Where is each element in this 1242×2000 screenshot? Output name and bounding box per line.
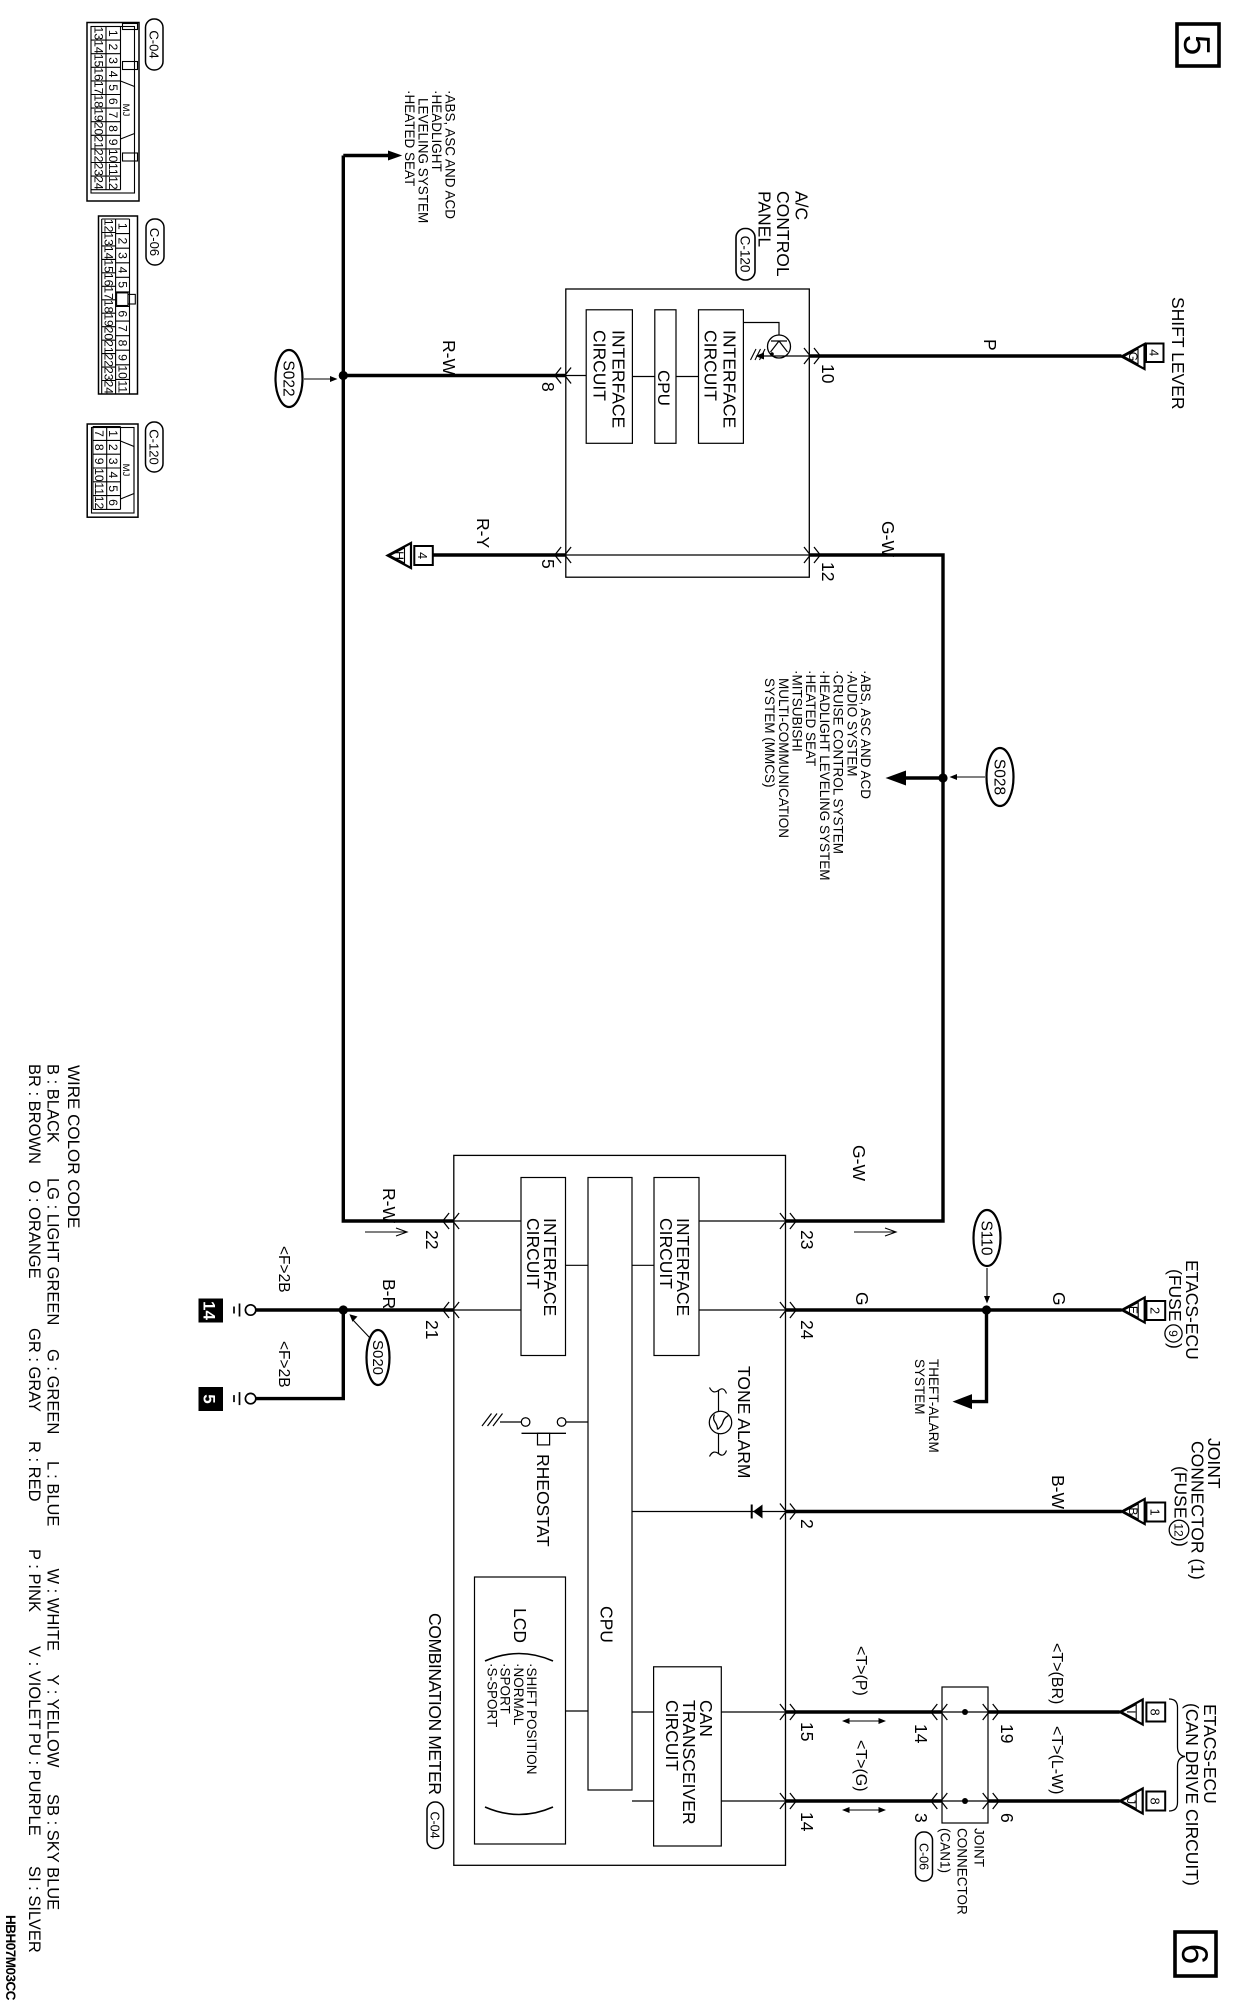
page-ref arrow E2 (ETACS-ECU fuse 9) bbox=[1122, 1298, 1166, 1323]
ETACS-ECU (fuse 9) label bbox=[1165, 1260, 1202, 1360]
interface circuit box (meter left) bbox=[521, 1178, 566, 1356]
A/C control panel box bbox=[566, 289, 810, 577]
direction arrow (pin 22) bbox=[365, 1228, 407, 1236]
svg-text:14: 14 bbox=[911, 1724, 931, 1744]
svg-text:18: 18 bbox=[92, 95, 106, 109]
pin 23 chevrons bbox=[780, 1213, 796, 1229]
wire R-Y: pin 5 down to page arrow bbox=[433, 553, 566, 556]
svg-text:·MITSUBISHI: ·MITSUBISHI bbox=[790, 670, 805, 752]
direction arrow (T P) bbox=[842, 1718, 886, 1724]
wire: A/C upper interface to cpu bbox=[676, 376, 699, 378]
svg-text:5: 5 bbox=[116, 281, 130, 288]
svg-text:·HEATED SEAT: ·HEATED SEAT bbox=[402, 90, 417, 186]
svg-text:P: P bbox=[980, 339, 1000, 351]
joint connector (CAN1) box bbox=[942, 1687, 988, 1823]
joint dot (pin 3-6) bbox=[962, 1798, 968, 1804]
svg-text:·SPORT: ·SPORT bbox=[498, 1663, 513, 1714]
svg-text:3: 3 bbox=[106, 57, 120, 64]
wire B-W: pin 2 up to joint connector(1) bbox=[786, 1510, 1122, 1513]
svg-text:<T>(G): <T>(G) bbox=[852, 1740, 869, 1792]
svg-text:CIRCUIT: CIRCUIT bbox=[523, 1218, 543, 1289]
svg-text:20: 20 bbox=[102, 327, 116, 341]
pin 8 wire inside A/C panel bbox=[566, 375, 586, 377]
svg-text:·HEADLIGHT: ·HEADLIGHT bbox=[429, 90, 444, 172]
JC pin 3 chevrons bbox=[931, 1793, 947, 1809]
ground wire to ground 5 bbox=[256, 1310, 344, 1399]
svg-text:9: 9 bbox=[92, 458, 106, 465]
svg-text:<T>(BR): <T>(BR) bbox=[1048, 1643, 1065, 1704]
combination meter box bbox=[454, 1155, 786, 1865]
junction S022 dot bbox=[339, 371, 348, 380]
interface circuit box (meter right) bbox=[654, 1178, 699, 1356]
svg-text:INTERFACE: INTERFACE bbox=[609, 330, 629, 428]
wire: meter left interface to cpu bbox=[566, 1264, 589, 1266]
svg-text:LEVELING SYSTEM: LEVELING SYSTEM bbox=[416, 98, 431, 223]
svg-text:C-04: C-04 bbox=[428, 1811, 442, 1838]
wire CAN <T>(G): pin 14 to joint connector bbox=[786, 1799, 943, 1802]
wire G-W: pin 12 up, bus across, down to meter pin 23 bbox=[786, 555, 944, 1221]
wire R-W: pin 8 down to bus bbox=[342, 374, 566, 377]
svg-text:S020: S020 bbox=[369, 1340, 386, 1375]
svg-text:CIRCUIT: CIRCUIT bbox=[656, 1218, 676, 1289]
svg-text:·ABS, ASC AND ACD: ·ABS, ASC AND ACD bbox=[443, 90, 458, 219]
connector pinout C-04 bbox=[87, 23, 139, 202]
svg-text:11: 11 bbox=[116, 380, 130, 393]
cpu box (A/C panel) bbox=[654, 310, 676, 444]
svg-text:1: 1 bbox=[106, 430, 120, 437]
wire G: pin 24 up to ETACS-ECU bbox=[786, 1308, 1122, 1311]
svg-text:CIRCUIT: CIRCUIT bbox=[590, 330, 610, 401]
R-W bus destination text bbox=[402, 90, 458, 223]
svg-text:20: 20 bbox=[92, 122, 106, 136]
diode (pin 2 wire) bbox=[632, 1505, 786, 1519]
tone alarm bbox=[709, 1388, 731, 1457]
connector pinout C-06 bbox=[99, 216, 138, 394]
page-ref arrow H4 (R-Y to page 4) bbox=[388, 543, 433, 568]
R-W bus arrow to other systems bbox=[343, 151, 402, 161]
wire CAN <T>(P): pin 15 to joint connector bbox=[786, 1710, 943, 1713]
svg-text:S022: S022 bbox=[280, 360, 297, 396]
svg-text:): ) bbox=[1165, 1343, 1185, 1349]
svg-text:ETACS-ECU: ETACS-ECU bbox=[1182, 1260, 1202, 1360]
svg-text:17: 17 bbox=[102, 286, 116, 300]
page-ref arrow G4 (to shift lever) bbox=[1122, 344, 1164, 370]
svg-text:CONTROL: CONTROL bbox=[773, 191, 793, 277]
svg-text:9: 9 bbox=[1166, 1330, 1180, 1337]
splice label S022 bbox=[276, 350, 338, 407]
page-ref arrow I8 (CAN high) bbox=[1120, 1700, 1166, 1725]
svg-text:CONNECTOR: CONNECTOR bbox=[955, 1828, 970, 1915]
svg-text:2: 2 bbox=[116, 238, 130, 245]
svg-text:8: 8 bbox=[1147, 1709, 1161, 1716]
circled 12 bbox=[1169, 1520, 1189, 1540]
svg-text:(FUSE: (FUSE bbox=[1165, 1269, 1185, 1322]
svg-text:CPU: CPU bbox=[654, 370, 673, 406]
svg-text:R-W: R-W bbox=[379, 1188, 399, 1223]
can transceiver circuit box bbox=[654, 1667, 722, 1846]
svg-text:9: 9 bbox=[106, 139, 120, 146]
wire: A/C cpu to lower interface bbox=[632, 376, 654, 378]
ground symbol 5 bbox=[234, 1392, 256, 1405]
svg-text:7: 7 bbox=[116, 325, 130, 332]
svg-text:14: 14 bbox=[797, 1812, 817, 1832]
ground number box 14 bbox=[199, 1299, 224, 1323]
svg-text:14: 14 bbox=[102, 246, 116, 260]
svg-text:5: 5 bbox=[538, 559, 558, 569]
svg-text:22: 22 bbox=[92, 149, 106, 163]
connector tag C-04 (pinout) bbox=[146, 19, 164, 70]
interface circuit box (A/C lower) bbox=[586, 310, 632, 444]
svg-text:24: 24 bbox=[102, 381, 116, 395]
pin 5 chevrons bbox=[555, 547, 571, 563]
svg-text:24: 24 bbox=[92, 176, 106, 190]
svg-text:6: 6 bbox=[997, 1813, 1017, 1823]
page number box 6 bbox=[1174, 1932, 1216, 1976]
svg-text:INTERFACE: INTERFACE bbox=[720, 330, 740, 428]
svg-text:C-06: C-06 bbox=[147, 228, 162, 256]
svg-text:): ) bbox=[1171, 1541, 1191, 1547]
svg-text:23: 23 bbox=[102, 367, 116, 381]
svg-text:<T>(P): <T>(P) bbox=[852, 1646, 869, 1696]
svg-text:7: 7 bbox=[106, 112, 120, 119]
cpu box (meter) bbox=[588, 1178, 632, 1791]
svg-text:G: G bbox=[1049, 1292, 1069, 1306]
rheostat bbox=[482, 1414, 588, 1445]
svg-text:·NORMAL: ·NORMAL bbox=[511, 1663, 526, 1726]
pin 21 chevrons bbox=[443, 1302, 459, 1318]
svg-text:(FUSE: (FUSE bbox=[1171, 1466, 1191, 1519]
svg-text:1: 1 bbox=[116, 223, 130, 230]
pin 10 chevrons bbox=[804, 348, 820, 364]
svg-text:CIRCUIT: CIRCUIT bbox=[701, 330, 721, 401]
svg-text:BR : BROWNO : ORANGEGR : GRAYR: BR : BROWNO : ORANGEGR : GRAYR : REDP : … bbox=[25, 1064, 43, 1953]
wire: A/C upper interface to illumination lamp bbox=[743, 323, 779, 336]
svg-text:2: 2 bbox=[106, 444, 120, 451]
svg-text:A/C: A/C bbox=[792, 191, 812, 220]
svg-text:1: 1 bbox=[1147, 1509, 1161, 1516]
svg-text:10: 10 bbox=[116, 365, 130, 379]
svg-text:1: 1 bbox=[106, 30, 120, 37]
splice label S020 bbox=[349, 1314, 389, 1385]
svg-text:5: 5 bbox=[1176, 35, 1217, 56]
ETACS-ECU (CAN drive circuit) label bbox=[1182, 1703, 1220, 1886]
svg-text:22: 22 bbox=[102, 354, 116, 368]
pin 12 chevrons bbox=[804, 547, 820, 563]
svg-text:·HEADLIGHT LEVELING SYSTEM: ·HEADLIGHT LEVELING SYSTEM bbox=[817, 670, 832, 881]
svg-text:14: 14 bbox=[92, 40, 106, 54]
junction S028 dot bbox=[938, 773, 947, 782]
svg-text:16: 16 bbox=[102, 273, 116, 287]
junction S020 dot bbox=[339, 1305, 348, 1314]
illumination lamp bbox=[768, 335, 791, 358]
svg-text:B-R: B-R bbox=[379, 1279, 399, 1309]
svg-text:<F>2B: <F>2B bbox=[275, 1246, 292, 1293]
connector tag C-06 (pinout) bbox=[146, 219, 164, 265]
pin 14 chevrons bbox=[780, 1793, 796, 1809]
wire CAN <T>(BR): joint connector to ETACS bbox=[988, 1710, 1120, 1713]
svg-text:5: 5 bbox=[200, 1394, 219, 1403]
svg-text:4: 4 bbox=[1147, 349, 1161, 356]
svg-text:C-06: C-06 bbox=[917, 1843, 931, 1870]
svg-text:R-W: R-W bbox=[439, 340, 459, 375]
pin 21 wire inside meter bbox=[454, 1309, 521, 1311]
svg-text:(CAN1): (CAN1) bbox=[938, 1828, 953, 1873]
svg-text:B-W: B-W bbox=[1048, 1475, 1068, 1510]
svg-text:G: G bbox=[1126, 352, 1140, 361]
svg-text:2: 2 bbox=[106, 44, 120, 51]
svg-text:SYSTEM (MMCS): SYSTEM (MMCS) bbox=[762, 678, 777, 788]
wires: cpu to can transceiver bbox=[632, 1711, 654, 1713]
svg-text:LCD: LCD bbox=[510, 1608, 530, 1643]
svg-text:WIRE COLOR CODE: WIRE COLOR CODE bbox=[64, 1065, 83, 1228]
svg-text:10: 10 bbox=[106, 149, 120, 163]
svg-text:6: 6 bbox=[1174, 1944, 1215, 1965]
svg-text:23: 23 bbox=[797, 1230, 817, 1249]
svg-text:10: 10 bbox=[818, 364, 838, 384]
svg-text:E: E bbox=[1126, 1306, 1140, 1314]
pin 24 chevrons bbox=[780, 1302, 796, 1318]
joint connector CAN1 wires through box bbox=[942, 1711, 988, 1713]
svg-text:15: 15 bbox=[102, 259, 116, 273]
svg-text:22: 22 bbox=[422, 1230, 442, 1249]
joint connector CAN1 label bbox=[938, 1828, 987, 1915]
svg-text:C-120: C-120 bbox=[147, 429, 162, 464]
svg-text:C-120: C-120 bbox=[738, 236, 753, 273]
svg-text:8: 8 bbox=[92, 444, 106, 451]
wire B-R: pin 21 to ground junction bbox=[343, 1308, 454, 1311]
svg-text:RHEOSTAT: RHEOSTAT bbox=[533, 1454, 553, 1547]
svg-text:18: 18 bbox=[102, 300, 116, 314]
svg-text:11: 11 bbox=[92, 482, 106, 495]
svg-text:16: 16 bbox=[92, 67, 106, 81]
svg-text:2: 2 bbox=[1147, 1307, 1161, 1314]
JC pin 6 chevrons bbox=[983, 1793, 999, 1809]
brace (ETACS CAN drive) bbox=[1169, 1699, 1185, 1811]
svg-text:G-W: G-W bbox=[849, 1145, 869, 1181]
svg-text:<F>2B: <F>2B bbox=[275, 1341, 292, 1388]
svg-text:THEFT-ALARM: THEFT-ALARM bbox=[926, 1359, 941, 1453]
pin 15 chevrons bbox=[780, 1704, 796, 1720]
svg-text:19: 19 bbox=[997, 1724, 1017, 1743]
svg-text:4: 4 bbox=[106, 71, 120, 78]
svg-text:3: 3 bbox=[116, 252, 130, 259]
svg-text:MULTI-COMMUNICATION: MULTI-COMMUNICATION bbox=[776, 678, 791, 838]
ground symbol 14 bbox=[234, 1304, 256, 1317]
svg-text:21: 21 bbox=[92, 135, 106, 149]
svg-text:3: 3 bbox=[911, 1813, 931, 1823]
svg-text:5: 5 bbox=[106, 485, 120, 492]
joint connector (1) fuse 12 label bbox=[1171, 1438, 1225, 1580]
connector pinout C-120 bbox=[87, 424, 138, 517]
splice label S110 bbox=[974, 1210, 1001, 1304]
svg-text:8: 8 bbox=[1147, 1798, 1161, 1805]
svg-text:19: 19 bbox=[92, 108, 106, 122]
junction S110 dot bbox=[982, 1305, 991, 1314]
svg-text:13: 13 bbox=[92, 27, 106, 41]
lcd box bbox=[475, 1577, 566, 1844]
svg-text:15: 15 bbox=[92, 54, 106, 68]
svg-text:2: 2 bbox=[797, 1519, 817, 1529]
svg-text:CPU: CPU bbox=[597, 1606, 617, 1643]
svg-text:15: 15 bbox=[797, 1722, 817, 1741]
svg-text:MJ: MJ bbox=[120, 104, 131, 117]
svg-text:8: 8 bbox=[538, 382, 558, 392]
wire: lcd to cpu bbox=[566, 1710, 589, 1712]
svg-text:8: 8 bbox=[116, 340, 130, 347]
svg-text:S028: S028 bbox=[991, 759, 1008, 795]
svg-text:SYSTEM: SYSTEM bbox=[912, 1359, 927, 1415]
svg-text:11: 11 bbox=[106, 163, 120, 176]
page-ref arrow B1 (joint connector fuse 12) bbox=[1122, 1499, 1166, 1524]
direction arrow (T G) bbox=[842, 1807, 886, 1813]
svg-text:(CAN DRIVE CIRCUIT): (CAN DRIVE CIRCUIT) bbox=[1182, 1703, 1202, 1886]
svg-text:PANEL: PANEL bbox=[755, 191, 775, 247]
svg-text:·ABS, ASC AND ACD: ·ABS, ASC AND ACD bbox=[858, 670, 873, 799]
svg-text:TRANSCEIVER: TRANSCEIVER bbox=[679, 1700, 699, 1824]
svg-text:12: 12 bbox=[106, 176, 120, 190]
svg-text:HBH07M03CC: HBH07M03CC bbox=[3, 1915, 18, 2000]
pin 24 wire inside meter bbox=[699, 1309, 786, 1311]
pin 14 wire inside meter bbox=[721, 1800, 785, 1802]
theft-alarm system text bbox=[912, 1359, 941, 1453]
svg-text:5: 5 bbox=[106, 84, 120, 91]
ground number box 5 bbox=[199, 1387, 224, 1411]
svg-text:10: 10 bbox=[92, 468, 106, 482]
svg-text:R-Y: R-Y bbox=[473, 518, 493, 548]
svg-text:S110: S110 bbox=[978, 1220, 995, 1255]
svg-text:13: 13 bbox=[102, 232, 116, 246]
JC pin 19 chevrons bbox=[983, 1704, 999, 1720]
G-W branch arrow to other systems bbox=[886, 771, 944, 786]
svg-text:·CRUISE CONTROL SYSTEM: ·CRUISE CONTROL SYSTEM bbox=[831, 670, 846, 854]
svg-text:6: 6 bbox=[116, 310, 130, 317]
wire P: shift lever to A/C panel pin 10 bbox=[809, 354, 1121, 357]
svg-text:12: 12 bbox=[818, 562, 838, 581]
svg-text:<T>(L-W): <T>(L-W) bbox=[1048, 1726, 1065, 1794]
svg-text:8: 8 bbox=[106, 125, 120, 132]
svg-text:21: 21 bbox=[422, 1320, 442, 1339]
svg-text:·AUDIO SYSTEM: ·AUDIO SYSTEM bbox=[844, 670, 859, 777]
svg-text:B : BLACKLG : LIGHT GREENG : G: B : BLACKLG : LIGHT GREENG : GREENL : BL… bbox=[44, 1064, 62, 1910]
svg-text:H: H bbox=[392, 551, 406, 560]
wire: meter cpu to right interface bbox=[632, 1264, 654, 1266]
svg-text:MJ: MJ bbox=[120, 464, 131, 477]
svg-text:JOINT: JOINT bbox=[972, 1828, 987, 1867]
svg-text:CAN: CAN bbox=[696, 1700, 716, 1737]
connector tag C-04 (meter) bbox=[427, 1802, 444, 1849]
svg-text:7: 7 bbox=[92, 430, 106, 437]
svg-text:B: B bbox=[1126, 1507, 1140, 1515]
svg-text:INTERFACE: INTERFACE bbox=[540, 1218, 560, 1316]
splice label S028 bbox=[950, 748, 1014, 806]
main R-W bus wire bbox=[343, 156, 454, 1222]
svg-text:CIRCUIT: CIRCUIT bbox=[662, 1700, 682, 1771]
svg-text:·S-SPORT: ·S-SPORT bbox=[484, 1663, 499, 1727]
pin 8 chevrons bbox=[555, 368, 571, 384]
svg-text:I: I bbox=[1124, 1710, 1138, 1713]
connector tag C-120 (A/C panel) bbox=[736, 229, 755, 281]
svg-text:21: 21 bbox=[102, 340, 116, 354]
wire: lamp through pin 10 line with dimmer arrow bbox=[751, 349, 810, 360]
JC pin 14 chevrons bbox=[931, 1704, 947, 1720]
ground wire to ground 14 bbox=[256, 1308, 344, 1311]
svg-text:6: 6 bbox=[106, 499, 120, 506]
svg-text:23: 23 bbox=[92, 163, 106, 177]
theft-alarm branch wire bbox=[953, 1310, 987, 1409]
pin 15 wire inside meter bbox=[721, 1711, 785, 1713]
svg-text:17: 17 bbox=[92, 81, 106, 95]
pin 2 chevrons bbox=[780, 1504, 796, 1520]
svg-text:C-04: C-04 bbox=[147, 30, 162, 58]
svg-text:ETACS-ECU: ETACS-ECU bbox=[1200, 1704, 1220, 1804]
connector tag C-06 (CAN1) bbox=[916, 1832, 933, 1881]
page-ref arrow J8 (CAN low) bbox=[1120, 1789, 1166, 1814]
svg-text:24: 24 bbox=[797, 1320, 817, 1340]
svg-text:SHIFT LEVER: SHIFT LEVER bbox=[1168, 297, 1188, 410]
G-W branch destination text bbox=[762, 670, 873, 881]
pin 23 wire inside meter bbox=[699, 1220, 786, 1222]
connector tag C-120 (pinout) bbox=[146, 422, 164, 472]
joint dot (pin 14-19) bbox=[962, 1709, 968, 1715]
svg-text:12: 12 bbox=[102, 219, 116, 233]
svg-text:9: 9 bbox=[116, 354, 130, 361]
svg-text:CONNECTOR (1): CONNECTOR (1) bbox=[1188, 1441, 1208, 1580]
svg-text:14: 14 bbox=[200, 1301, 219, 1320]
pin 22 chevrons bbox=[443, 1213, 459, 1229]
svg-text:4: 4 bbox=[116, 267, 130, 274]
wire: A/C through wire pin12 to pin5 bbox=[566, 554, 810, 556]
svg-text:G-W: G-W bbox=[878, 521, 898, 557]
svg-text:·HEATED SEAT: ·HEATED SEAT bbox=[803, 670, 818, 766]
svg-text:19: 19 bbox=[102, 313, 116, 327]
svg-text:3: 3 bbox=[106, 458, 120, 465]
svg-text:J: J bbox=[1124, 1798, 1138, 1804]
interface circuit box (A/C upper) bbox=[699, 310, 744, 444]
pin 22 wire inside meter bbox=[454, 1220, 521, 1222]
page number box 5 bbox=[1176, 24, 1219, 66]
svg-text:INTERFACE: INTERFACE bbox=[673, 1218, 693, 1316]
svg-text:COMBINATION METER: COMBINATION METER bbox=[425, 1613, 445, 1795]
circled 9 bbox=[1165, 1325, 1182, 1342]
svg-text:12: 12 bbox=[92, 496, 106, 510]
direction arrow (pin 23) bbox=[854, 1228, 896, 1236]
svg-text:6: 6 bbox=[106, 98, 120, 105]
svg-text:·SHIFT POSITION: ·SHIFT POSITION bbox=[524, 1663, 539, 1775]
wire color code legend bbox=[25, 1064, 83, 1953]
svg-text:12: 12 bbox=[1172, 1523, 1186, 1537]
svg-text:G: G bbox=[852, 1292, 872, 1306]
svg-text:4: 4 bbox=[415, 552, 429, 559]
svg-text:TONE ALARM: TONE ALARM bbox=[734, 1366, 754, 1479]
svg-text:4: 4 bbox=[106, 472, 120, 479]
wire CAN <T>(L-W): joint connector to ETACS bbox=[988, 1799, 1120, 1802]
